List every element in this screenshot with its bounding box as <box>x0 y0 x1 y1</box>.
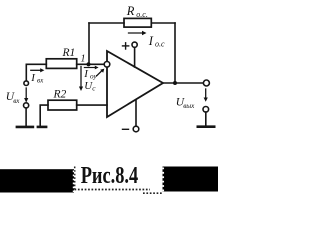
value label R1 <box>62 47 76 59</box>
positive supply pin <box>132 42 137 67</box>
wire feedback vertical <box>174 23 176 83</box>
wire Roc right to feedback corner <box>151 22 175 24</box>
value label R2 <box>53 89 67 101</box>
value label Roc <box>126 4 148 19</box>
caption dotted edge on right block <box>162 168 164 193</box>
ground (R2) <box>37 126 48 129</box>
output terminal upper <box>203 80 209 86</box>
svg-text:Рис.8.4: Рис.8.4 <box>81 163 139 189</box>
svg-text:R2: R2 <box>53 89 67 101</box>
svg-text:R1: R1 <box>62 47 76 59</box>
svg-text:о.с: о.с <box>155 40 165 49</box>
caption black block left <box>0 169 74 192</box>
current arrow Ivx <box>31 68 45 72</box>
label Uvx <box>6 91 21 105</box>
label Ivx <box>30 72 44 85</box>
label Uc <box>84 80 96 92</box>
voltage arrow Uvx <box>24 88 28 103</box>
svg-text:о.с.: о.с. <box>136 10 148 19</box>
svg-text:R: R <box>126 4 135 18</box>
svg-text:вх: вх <box>37 76 44 84</box>
minus sign <box>123 128 129 130</box>
wire node1 to Roc left <box>89 22 124 24</box>
wire node1 vertical up <box>88 23 90 64</box>
plus sign <box>123 43 129 49</box>
inverting input terminal circle <box>104 62 110 68</box>
voltage arrow Uc <box>79 67 83 92</box>
resistor Roc <box>124 18 151 27</box>
label Iou <box>83 68 97 80</box>
input terminal upper <box>25 64 27 81</box>
current arrow Iou <box>84 66 98 70</box>
wire lower terminal to ground <box>25 108 27 126</box>
ground (input) <box>16 126 35 129</box>
wire op-amp output <box>163 82 203 84</box>
caption dotted border bottom-right segment <box>143 192 162 194</box>
svg-text:вх: вх <box>13 97 20 105</box>
current arrow into inverting input <box>97 69 105 76</box>
resistor R1 <box>46 59 76 69</box>
node label 1 <box>81 54 86 65</box>
input terminal lower <box>24 103 29 108</box>
svg-text:вых: вых <box>183 102 195 110</box>
caption dotted border bottom <box>75 189 151 191</box>
label Uvyx <box>176 96 195 110</box>
caption black block right <box>163 167 219 192</box>
resistor R2 <box>48 100 77 110</box>
svg-text:I: I <box>148 34 154 48</box>
svg-text:I: I <box>30 72 36 84</box>
op-amp U1 <box>107 51 163 117</box>
svg-text:I: I <box>83 68 89 80</box>
wire R2 to op-amp lower input <box>77 104 107 106</box>
svg-text:1: 1 <box>81 54 86 65</box>
wire input to R1 <box>26 63 46 65</box>
label Ioc <box>148 34 165 49</box>
output terminal lower <box>203 107 209 113</box>
wire R1 to node1 <box>77 63 105 65</box>
caption dotted edge on left block <box>73 171 75 193</box>
ground (output) <box>197 125 216 128</box>
negative supply pin <box>133 101 139 132</box>
node 1 junction <box>86 62 90 66</box>
wire R2 left to ground <box>40 105 48 126</box>
current arrow Ioc <box>129 31 147 35</box>
output junction <box>173 81 177 85</box>
svg-text:с: с <box>92 84 96 92</box>
wire output terminal to ground <box>205 112 207 126</box>
voltage arrow Uvyx <box>204 89 208 102</box>
caption dotted border left <box>74 167 76 190</box>
